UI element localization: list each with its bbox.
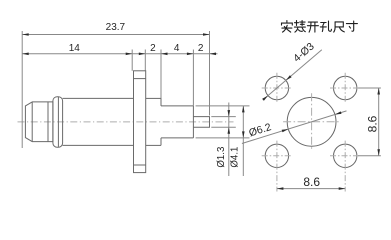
shaft end face <box>192 106 194 138</box>
arrow 8.6h right <box>339 187 346 190</box>
extension line flange right <box>144 50 146 71</box>
bottom-right hole h-centerline <box>330 155 360 157</box>
extension line shaft step 1 <box>160 50 162 106</box>
svg-text:23.7: 23.7 <box>106 22 126 33</box>
top-right hole v-centerline <box>344 73 346 103</box>
step down edge top <box>160 98 162 106</box>
shaft top edge <box>161 105 193 107</box>
svg-text:Ø4.1: Ø4.1 <box>229 147 240 168</box>
central circle h-centerline <box>283 121 340 123</box>
dimension line dia4.1 <box>242 106 244 176</box>
arrow dia6.2 right (points inward) <box>335 111 342 114</box>
top-left hole h-centerline <box>262 87 292 89</box>
arrow 23.7 right <box>203 33 210 36</box>
step down edge bottom <box>160 138 162 146</box>
mounting hole circle bottom-right <box>334 144 357 167</box>
extension line shaft step 2 <box>192 50 194 106</box>
bottom-left hole h-centerline <box>262 155 292 157</box>
svg-text:8.6: 8.6 <box>303 175 320 189</box>
tip groove line <box>47 102 49 142</box>
dimension line 8.6 bottom <box>277 188 345 190</box>
dimension line 23.7 <box>22 34 209 36</box>
body top edge <box>63 97 134 99</box>
center line of connector <box>18 121 234 123</box>
mounting hole circle top-left <box>265 76 288 99</box>
title glyph kong <box>320 21 331 31</box>
central circle v-centerline <box>311 93 313 150</box>
dimension line dia1.3 <box>228 103 230 177</box>
extension pin top <box>211 116 236 118</box>
extension shaft bottom <box>196 137 250 139</box>
flange top chamfer line <box>134 78 146 80</box>
arrow 2b right (outside) <box>210 53 217 56</box>
arrow dia1.3 top <box>228 110 231 117</box>
mounting hole circle top-right <box>334 76 357 99</box>
svg-text:8.6: 8.6 <box>366 115 380 132</box>
central hole circle dia6.2 <box>287 97 336 146</box>
extension shaft top <box>196 105 250 107</box>
extension top-right hole to 8.6 dim <box>358 87 381 89</box>
extension line left end <box>21 31 23 148</box>
collar ring <box>53 97 63 148</box>
arrow 8.6v bottom <box>377 149 380 156</box>
svg-text:2: 2 <box>150 43 156 54</box>
leader line 4-dia3 <box>263 50 322 100</box>
svg-text:4: 4 <box>174 43 180 54</box>
extension pin bottom <box>211 126 236 128</box>
arrow 4-dia3 lower (points inward) <box>262 96 268 101</box>
collar inner edge <box>57 97 59 147</box>
arrow 4 right / 2b left <box>187 53 194 56</box>
arrow 2a left (outside) <box>139 53 146 56</box>
rear section top edge <box>146 97 161 99</box>
dimension line 14-2-4-2 <box>22 53 217 55</box>
flange <box>134 71 146 173</box>
connector tip cylinder <box>25 102 53 142</box>
svg-text:Ø1.3: Ø1.3 <box>216 147 227 168</box>
tip chamfer edge line <box>31 102 33 142</box>
svg-text:14: 14 <box>69 43 81 54</box>
dimension line 8.6 vertical <box>378 88 380 156</box>
rear section bottom edge <box>146 144 161 146</box>
svg-text:2: 2 <box>198 43 204 54</box>
arrow dia4.1 top <box>242 106 245 113</box>
arrow 4-dia3 upper (points inward) <box>286 75 292 80</box>
leader line dia6.2 <box>242 111 347 144</box>
title glyph chi <box>334 22 345 32</box>
extension line right end (pin tip) <box>209 31 211 116</box>
arrow 8.6h left <box>277 187 284 190</box>
top-right hole h-centerline <box>330 87 360 89</box>
flange bottom chamfer line <box>134 164 146 166</box>
title glyph cun <box>346 21 357 31</box>
arrow 14 left <box>22 53 29 56</box>
arrow 14 right <box>126 53 133 56</box>
center pin <box>193 117 209 128</box>
shaft bottom edge <box>161 137 193 139</box>
extension line flange left <box>131 50 133 71</box>
body bottom edge <box>63 144 134 146</box>
arrow dia1.3 bottom <box>228 127 231 134</box>
mounting hole circle bottom-left <box>265 144 288 167</box>
title glyph kai <box>307 22 318 32</box>
title glyph zhuang <box>294 21 305 33</box>
arrow dia4.1 bottom <box>242 131 245 138</box>
arrow 8.6v top <box>377 88 380 95</box>
extension bottom-right hole to 8.6 dim <box>358 155 381 157</box>
arrow 23.7 left <box>22 33 29 36</box>
top-left hole v-centerline <box>276 73 278 103</box>
bottom-left hole v-centerline <box>276 141 278 192</box>
bottom-right hole v-centerline <box>344 141 346 192</box>
title glyph an <box>282 21 293 33</box>
arrow 2a right / 4 left <box>161 53 168 56</box>
arrow dia6.2 left (points inward) <box>282 129 289 132</box>
